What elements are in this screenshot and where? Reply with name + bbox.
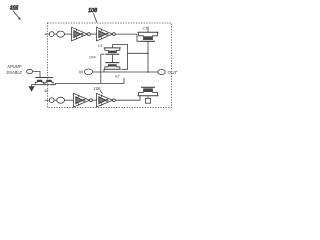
inverter top 1 [72, 27, 91, 41]
wire [90, 33, 96, 35]
wire [65, 33, 72, 35]
wire to nmos source [115, 96, 140, 100]
svg-text:ENABLE: ENABLE [7, 70, 23, 75]
svg-text:V1: V1 [98, 44, 103, 48]
wire level shifter to M2 [56, 78, 125, 85]
transistor C1 (top right pull-up) [138, 26, 159, 72]
wire pmos drain to M1 chain [128, 52, 149, 54]
wire [65, 99, 74, 101]
wire [92, 99, 96, 101]
top input terminal [45, 31, 65, 37]
NPUMP ENABLE input [7, 64, 41, 77]
node OFF wire [89, 54, 105, 83]
wire to pmos gate [115, 34, 141, 41]
inverter top 2 [97, 27, 116, 41]
transistor M2 (middle bottom) [104, 63, 121, 79]
ground arrow [29, 85, 35, 92]
OUT terminal [158, 69, 179, 75]
label 102 [10, 5, 21, 20]
inverter bottom 2 [97, 93, 116, 107]
label 106 [94, 86, 103, 94]
svg-text:106: 106 [94, 86, 102, 91]
svg-text:C1: C1 [143, 26, 148, 30]
transistor 62 (bottom right pull-down) [138, 87, 159, 103]
svg-text:OFF: OFF [89, 56, 97, 60]
transistor M1 (middle top) [98, 44, 121, 63]
svg-text:108: 108 [88, 8, 97, 14]
bottom input terminal [45, 97, 65, 103]
diode-connect loop wires [113, 45, 128, 70]
inverter bottom 1 [74, 93, 93, 107]
transistor pair 40 (level shifter) [31, 78, 55, 94]
IN terminal [79, 69, 93, 75]
svg-text:OUT: OUT [168, 70, 179, 75]
OUT wire [93, 71, 158, 73]
label 108 [88, 8, 97, 23]
svg-text:NPUMP: NPUMP [8, 64, 22, 69]
dashed block 108 [48, 23, 172, 108]
